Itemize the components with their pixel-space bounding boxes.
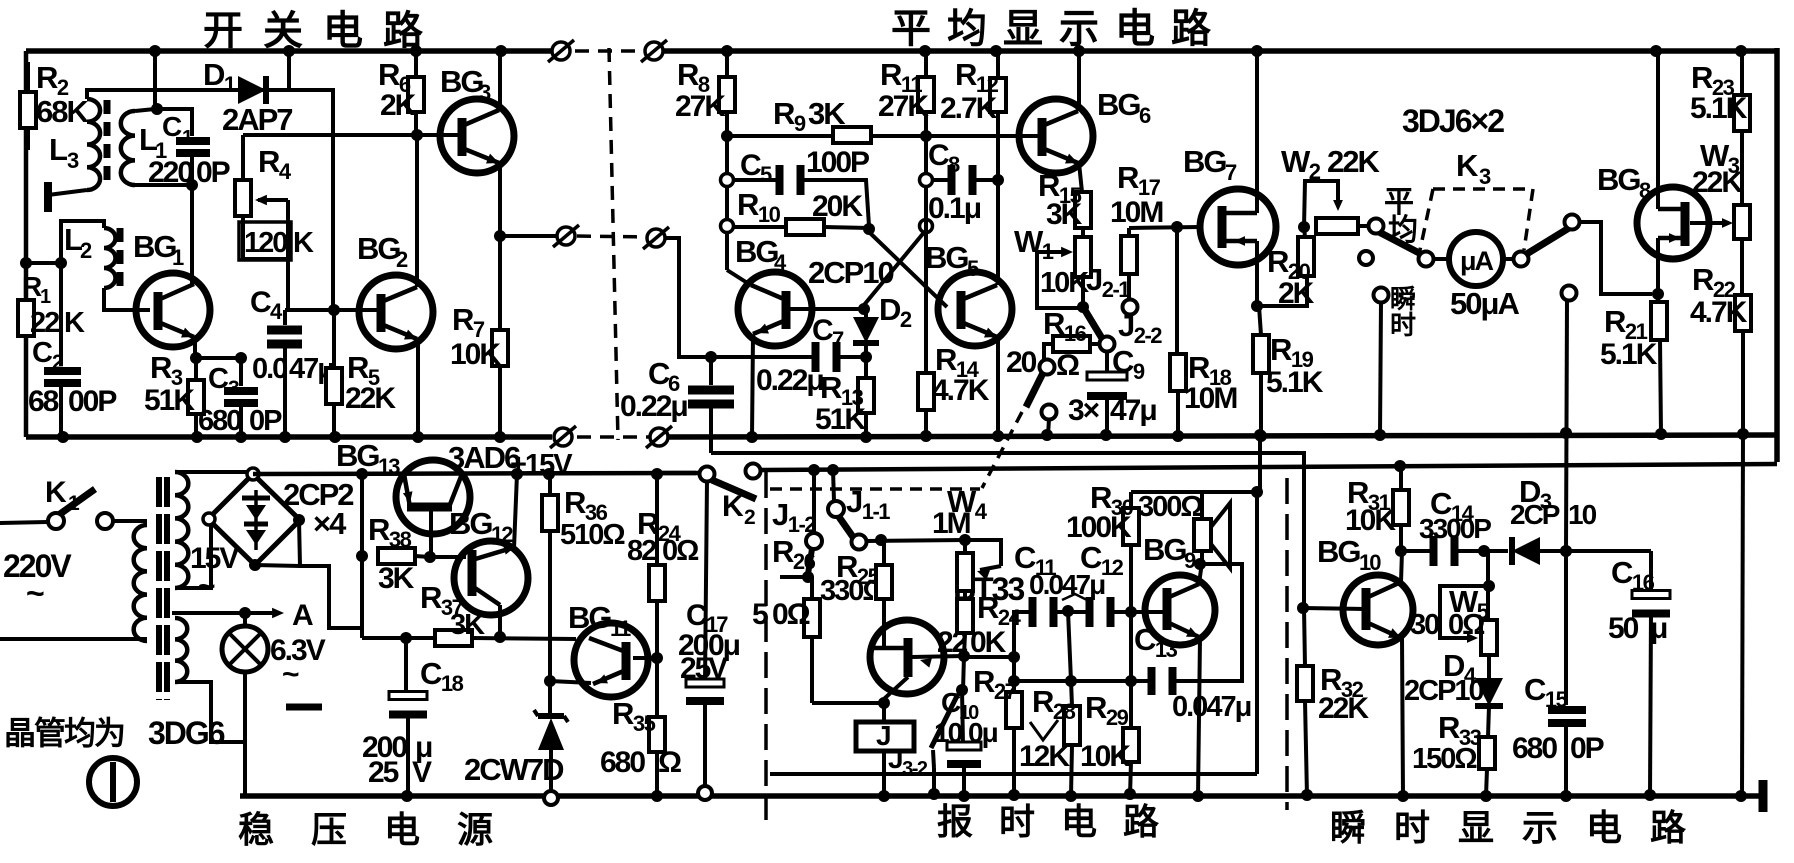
svg-text:22K: 22K [1327, 144, 1380, 179]
capacitor C13 0.047u [1176, 564, 1242, 681]
wire top bus left section [26, 48, 556, 54]
inductor L3 [87, 99, 100, 190]
wire BG8 drain to top bus [1656, 51, 1660, 209]
wire BG10 emitter to bottom bus [1402, 638, 1403, 796]
svg-text:K: K [45, 476, 67, 509]
resistor R32 22K [1297, 602, 1309, 614]
svg-text:10M: 10M [1110, 196, 1162, 229]
svg-text:0.047μ: 0.047μ [1172, 691, 1251, 723]
antenna electrode of L3 [48, 190, 87, 195]
inductor L1 [121, 111, 135, 185]
wire BG2 collector to R6/BG3 base node [415, 135, 419, 287]
wire +15V switched rail line3 [760, 464, 1777, 470]
resistor R24 820Ω power [651, 468, 663, 480]
capacitor C15 6800P [1564, 551, 1568, 705]
wire BG12 emitter down [498, 605, 502, 637]
terminal end bar [1759, 780, 1768, 812]
wire from nc symbol to C6/C7 row [664, 238, 711, 357]
wire R36 bottom to BG11 emitter [550, 681, 591, 683]
svg-text:Ω: Ω [658, 746, 681, 779]
svg-text:时: 时 [1390, 310, 1416, 340]
wire BG13 base column [360, 474, 364, 638]
svg-text:150Ω: 150Ω [1412, 743, 1477, 775]
svg-text:25: 25 [680, 652, 711, 685]
wire top bus middle/right [662, 48, 1777, 54]
svg-text:稳: 稳 [238, 809, 274, 850]
resistor R9 3K [833, 127, 871, 143]
svg-text:11: 11 [610, 616, 631, 641]
wire BG6 collector to top bus [1077, 51, 1081, 111]
dashed links to middle section [575, 49, 648, 53]
svg-text:13: 13 [378, 454, 400, 479]
wire L1 bottom to C1 bottom node [135, 183, 192, 187]
svg-text:3: 3 [67, 148, 79, 173]
wire 报时 box right edge [1255, 492, 1259, 774]
dashed mechanical link K2 to switch [770, 487, 980, 491]
resistor R15 3K [1079, 163, 1082, 192]
svg-text:22K: 22K [1692, 166, 1743, 199]
wire R9 row [727, 134, 926, 138]
resistor R18 10M [1175, 227, 1179, 354]
wire node to C3 [196, 356, 241, 360]
svg-text:BG: BG [1317, 534, 1360, 569]
transistor BG7 FET 3DJ6 [1200, 189, 1276, 265]
wire emitter node to C10 and R27 row [963, 656, 964, 690]
svg-text:2CP10: 2CP10 [1404, 675, 1484, 707]
resistor R20 2K [1257, 276, 1307, 306]
svg-text:2.7K: 2.7K [940, 92, 998, 125]
resistor R38 3K [356, 550, 368, 562]
transistor BG12 [454, 541, 528, 615]
svg-text:3: 3 [479, 80, 491, 105]
svg-text:2CW7D: 2CW7D [464, 752, 564, 787]
svg-text:00P: 00P [68, 385, 116, 418]
transistor BG11 [574, 623, 648, 697]
svg-text:100K: 100K [1066, 511, 1132, 544]
potentiometer W2 22K [1298, 221, 1310, 233]
svg-text:22: 22 [30, 307, 59, 339]
svg-text:10K: 10K [1080, 740, 1131, 773]
svg-text:6: 6 [1139, 103, 1151, 128]
transistor BG10 [1343, 575, 1413, 645]
dashed section divider vertical [609, 48, 618, 440]
svg-text:10M: 10M [1184, 382, 1236, 415]
svg-text:时: 时 [1394, 807, 1430, 848]
transformer core [156, 477, 162, 700]
svg-text:9: 9 [1184, 548, 1196, 573]
node BG1 emitter R3/C3 [193, 338, 197, 358]
resistor R35 680Ω [655, 658, 659, 717]
svg-text:晶管均为: 晶管均为 [4, 715, 124, 751]
capacitor C9 3x47u [1105, 351, 1109, 374]
diode D2 [864, 309, 868, 318]
capacitor C10 100u [962, 690, 963, 745]
BT33 emitter wire [912, 656, 963, 657]
svg-text:报: 报 [937, 801, 973, 842]
svg-text:A: A [292, 599, 313, 632]
resistor R16 20Ω [1044, 344, 1053, 360]
wire BG9 emitter down to bus [1198, 638, 1200, 796]
wire BG9 base [1163, 610, 1167, 614]
svg-text:22K: 22K [345, 382, 396, 415]
svg-text:K: K [1456, 148, 1479, 183]
contact J2-1 [1123, 300, 1138, 315]
capacitor C12 0.047u [1086, 597, 1094, 627]
svg-text:5.1K: 5.1K [1600, 338, 1658, 371]
svg-text:路: 路 [1171, 7, 1212, 51]
svg-text:μA: μA [1460, 246, 1494, 276]
diode D4 2CP10 [1487, 655, 1491, 678]
svg-text:C: C [648, 356, 670, 391]
svg-text:瞬: 瞬 [1330, 807, 1365, 848]
svg-text:~: ~ [26, 575, 44, 611]
svg-text:Ω: Ω [1056, 349, 1079, 382]
svg-text:510Ω: 510Ω [560, 519, 625, 551]
wire contact down to D3/C16 node [1566, 300, 1567, 550]
dashed mechanical link to K2 [982, 412, 1022, 488]
dashed divider time/instant sections [1285, 478, 1289, 810]
cross-coupling diagonal from R10/C5 node to BG5 base [869, 232, 947, 307]
svg-text:680: 680 [600, 746, 645, 779]
svg-text:压: 压 [311, 809, 346, 850]
svg-text:6.3V: 6.3V [270, 634, 326, 667]
wire R12/C8/BG5 collector column [990, 45, 1002, 57]
svg-text:50μA: 50μA [1450, 286, 1519, 321]
core ground strap [286, 704, 322, 711]
svg-text:3K: 3K [450, 609, 485, 641]
wire BG12 collector to rail [514, 474, 517, 548]
arm J1-2 [808, 549, 812, 574]
transistor BG2 [359, 275, 433, 349]
svg-text:3K: 3K [1046, 198, 1083, 231]
resistor R10 20K [734, 225, 786, 229]
svg-text:8: 8 [1639, 178, 1651, 203]
resistor R24 220K timer [963, 591, 967, 599]
svg-text:2K: 2K [1278, 277, 1315, 310]
no-connect symbol emitter line BG3 [557, 227, 575, 245]
wire C4 top to BG2 base [285, 308, 380, 312]
capacitor C8 0.1u [933, 178, 951, 182]
svg-text:51K: 51K [815, 403, 866, 436]
svg-text:50: 50 [1608, 612, 1639, 645]
svg-text:10K: 10K [1345, 504, 1396, 537]
switch K2 [700, 467, 715, 482]
svg-text:C: C [740, 149, 761, 182]
wire +15V rail to K2 [655, 471, 699, 476]
svg-text:27K: 27K [675, 90, 726, 123]
svg-text:BG: BG [449, 506, 492, 541]
no-connect symbol bottom bus left section [554, 428, 572, 446]
unused contact right pole to D3 node [1562, 286, 1577, 301]
resistor R5 22K [332, 310, 336, 368]
svg-text:×4: ×4 [313, 506, 347, 541]
svg-text:3×: 3× [1068, 394, 1100, 427]
svg-text:0P: 0P [196, 156, 230, 189]
svg-text:0P: 0P [1570, 732, 1604, 765]
transformer secondary 6.3V [175, 618, 187, 682]
resistor R17 10M [1127, 274, 1131, 300]
svg-text:12K: 12K [1019, 740, 1070, 773]
wire BG3 emitter to R7 [498, 163, 502, 330]
wire right border [1774, 48, 1780, 462]
resistor R36 510Ω [543, 468, 555, 480]
potentiometer W4 1M [959, 534, 971, 546]
wiper of W3 to BG8 [1690, 221, 1727, 225]
wire 报时 box bottom [770, 772, 1257, 776]
wire bottom bus left section [26, 434, 552, 440]
unused contact left pole [1359, 251, 1373, 265]
svg-text:3: 3 [1479, 164, 1491, 189]
relay contact arm J2 [1083, 307, 1103, 340]
wire BG6 base row [926, 134, 1041, 138]
svg-text:示: 示 [1522, 807, 1557, 848]
svg-text:均: 均 [947, 7, 985, 51]
wire BG2 emitter down to bus [416, 340, 420, 437]
svg-text:5: 5 [752, 598, 768, 631]
contact instantaneous with wire to bus [1374, 288, 1389, 303]
svg-text:K: K [722, 490, 744, 523]
svg-text:V: V [412, 756, 432, 789]
wire R37 row [362, 636, 435, 640]
wire secondary2 top with arrow A [172, 611, 277, 615]
resistor R2 68K [26, 62, 30, 92]
wire bridge plus to +15V rail [253, 473, 696, 474]
svg-text:680: 680 [1512, 732, 1557, 765]
wire L2 top hook [61, 221, 104, 263]
svg-text:2: 2 [396, 247, 408, 272]
svg-text:~: ~ [282, 658, 299, 691]
svg-text:4.7K: 4.7K [1690, 296, 1748, 329]
svg-text:22: 22 [937, 626, 968, 659]
wire speaker top row [1131, 490, 1257, 494]
resistor R19 5.1K [1259, 306, 1261, 335]
svg-text:5: 5 [967, 256, 979, 281]
svg-text:22K: 22K [1318, 692, 1369, 725]
svg-text:显: 显 [1003, 7, 1043, 51]
wire R38 to BG12 base [430, 555, 466, 559]
bridge rectifier 2CP2 x4 [208, 474, 300, 565]
node D1 cathode to top bus [283, 45, 295, 57]
wire BG10 collector to R31/C14 node [1401, 551, 1402, 582]
svg-text:5: 5 [760, 162, 772, 187]
node top bus to L1/C1 [149, 45, 161, 57]
wire BG5 emitter down to bus [996, 180, 1000, 285]
meter uA 50uA [1419, 252, 1434, 267]
transistor BG3 [440, 99, 514, 173]
switch contact linked to K2 upper [1040, 360, 1055, 375]
wire node to C1 [157, 109, 192, 136]
wire BG4 emitter down to bus [752, 335, 753, 437]
no-connect symbol middle bottom bus [650, 428, 668, 446]
wire second bus from C6 to R32 column [711, 453, 1304, 608]
zener diode 2CW7D [538, 713, 564, 719]
svg-text:BG: BG [1183, 144, 1226, 179]
contact C8 left [920, 174, 933, 187]
svg-text:20K: 20K [812, 190, 863, 223]
svg-text:关: 关 [263, 9, 303, 53]
svg-text:电: 电 [384, 809, 420, 850]
wire BG4 collector up [727, 270, 749, 284]
svg-text:5.1K: 5.1K [1690, 92, 1748, 125]
svg-text:100P: 100P [806, 146, 869, 179]
wire J1-1 to R25/W4 row [866, 540, 965, 541]
svg-text:均: 均 [1388, 214, 1417, 247]
no-connect symbol middle top bus [645, 42, 663, 60]
svg-text:路: 路 [1650, 807, 1687, 848]
svg-text:0Ω: 0Ω [772, 598, 810, 631]
wire L3 top to D1 anode [87, 90, 333, 309]
resistor R23 5.1K [1735, 45, 1747, 57]
lamp 6.3V [243, 613, 247, 627]
svg-text:R: R [22, 271, 42, 302]
contact J2-2 [1100, 337, 1115, 352]
resistor R37 3K [435, 630, 472, 646]
svg-text:源: 源 [457, 809, 493, 850]
switch K3 left pole contact from W2 [1369, 219, 1384, 234]
capacitor C6 0.22u [709, 357, 713, 385]
transistor BG4 [738, 272, 812, 346]
svg-text:显: 显 [1458, 807, 1494, 848]
wire x1743 column to bottom bus [1742, 434, 1743, 796]
contact C5 left [721, 174, 734, 187]
wire mains lower [0, 637, 147, 641]
svg-text:0.0: 0.0 [252, 353, 287, 385]
capacitor C14 3300P [1401, 549, 1430, 553]
svg-text:2AP7: 2AP7 [222, 102, 292, 137]
svg-text:12: 12 [491, 522, 513, 547]
inductor L2 [104, 228, 116, 288]
capacitor C17 200u 25V [705, 481, 707, 682]
svg-text:68K: 68K [36, 94, 89, 129]
wire C11/C12 mid node down to R28 [1068, 611, 1071, 681]
svg-text:BG: BG [440, 64, 483, 99]
svg-text:120: 120 [244, 227, 287, 259]
switch K3 right arm [1525, 228, 1569, 255]
arm J1-1 [839, 517, 853, 537]
wire secondary bottom to bridge left [175, 522, 211, 588]
bridge internal diodes [254, 490, 258, 550]
transistor BG8 FET 3DJ6 [1637, 187, 1709, 259]
svg-text:30: 30 [1410, 609, 1439, 641]
svg-text:BG: BG [357, 231, 400, 266]
svg-text:C: C [686, 599, 707, 632]
node left edge L2/R1 [20, 257, 32, 269]
wire BG4 base row [786, 307, 864, 311]
wire bottom bus main [240, 793, 1762, 799]
svg-text:47μ: 47μ [1110, 394, 1156, 427]
cross-coupling diagonal to R11 node [864, 230, 926, 305]
core of L1/L3 [104, 100, 111, 114]
wire secondary top to bridge [175, 470, 250, 474]
svg-text:0.22μ: 0.22μ [620, 390, 687, 423]
svg-text:82: 82 [627, 535, 656, 567]
capacitor C16 50u [1566, 549, 1651, 553]
contact right pole to BG8 gate [1565, 215, 1580, 230]
transistor BG5 [938, 272, 1012, 346]
transistor BG9 [1145, 575, 1215, 645]
wire secondary2 bottom [175, 682, 245, 742]
svg-text:μ: μ [1650, 612, 1667, 645]
svg-text:1: 1 [172, 245, 184, 270]
svg-text:平: 平 [891, 7, 930, 51]
resistor R29 10K [1123, 728, 1139, 762]
svg-text:3300P: 3300P [1419, 513, 1491, 544]
wire BG9 collector to speaker [1199, 562, 1202, 584]
capacitor C3 6800P [239, 358, 243, 386]
svg-text:68: 68 [28, 385, 59, 418]
wire BG8 source down to R21 [1656, 238, 1660, 302]
wire b1 row [812, 701, 884, 705]
svg-text:C: C [941, 687, 961, 718]
svg-text:BG: BG [568, 600, 611, 635]
svg-text:3DG6: 3DG6 [148, 715, 225, 751]
svg-text:K: K [64, 307, 85, 339]
svg-text:5.1K: 5.1K [1266, 366, 1324, 399]
wire BG7 source down [1255, 241, 1259, 306]
potentiometer W1 10K [1075, 237, 1091, 277]
transistor BG6 [1019, 99, 1093, 173]
resistor R3 51K [194, 358, 198, 380]
wire left edge vertical [24, 51, 29, 437]
contact R10 left [721, 220, 734, 233]
wire BG7 drain to top bus [1255, 51, 1259, 213]
svg-text:示: 示 [1059, 7, 1098, 51]
svg-text:3K: 3K [808, 96, 846, 131]
svg-text:C: C [928, 139, 949, 172]
svg-text:10K: 10K [450, 338, 501, 371]
svg-text:0.22μ: 0.22μ [756, 364, 823, 397]
svg-text:V: V [708, 652, 728, 685]
resistor R11 27K [919, 45, 931, 57]
svg-text:BG: BG [1143, 532, 1186, 567]
svg-text:0μ: 0μ [968, 717, 998, 748]
svg-text:10: 10 [1359, 550, 1381, 575]
resistor R7 10K [492, 330, 508, 366]
wire K3 right contact to BG8 [1579, 222, 1652, 294]
switch contact to bus [1042, 405, 1057, 420]
capacitor C18 200u 25V [400, 632, 412, 644]
svg-text:电: 电 [1061, 801, 1097, 842]
svg-text:0Ω: 0Ω [662, 535, 699, 567]
resistor R13 51K [864, 357, 868, 378]
svg-text:2: 2 [744, 506, 755, 529]
contact J1-1 [833, 470, 834, 501]
wire R27 row to C13 [1014, 679, 1150, 683]
wire L2 bottom to BG1 base [104, 288, 150, 310]
svg-text:电: 电 [1586, 807, 1622, 848]
svg-text:BG: BG [336, 438, 379, 473]
capacitor C11 0.047u [1014, 612, 1031, 657]
wire R8 column down [725, 136, 729, 270]
capacitor C5 100P [734, 178, 780, 182]
svg-text:0.1μ: 0.1μ [928, 192, 981, 225]
svg-text:2: 2 [80, 238, 92, 263]
relay contact J2 pivot [1077, 301, 1089, 313]
svg-text:2K: 2K [380, 89, 417, 122]
svg-text:7: 7 [1225, 160, 1237, 185]
wire bridge minus path [299, 520, 362, 628]
wire node down to BG1 collector [190, 185, 194, 284]
wire R25 to BT33 b2 [874, 599, 884, 648]
svg-text:1M: 1M [932, 507, 970, 540]
svg-text:K: K [293, 227, 314, 259]
svg-text:4.7K: 4.7K [932, 374, 990, 407]
no-connect symbol top bus right end [552, 42, 570, 60]
resistor R27 12K? column [1012, 612, 1016, 692]
svg-text:电: 电 [1115, 7, 1155, 51]
svg-text:电: 电 [323, 9, 363, 53]
svg-text:10: 10 [1568, 499, 1597, 530]
